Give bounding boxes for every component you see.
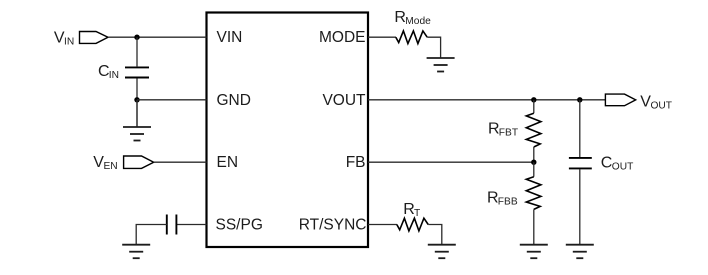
- ground RMode: [427, 58, 455, 72]
- resistor R2 RFBT top lead: [533, 100, 535, 113]
- svg-text:R: R: [394, 9, 406, 26]
- svg-text:VIN: VIN: [217, 29, 243, 46]
- wire RMode to ground corner: [427, 37, 440, 58]
- wire COUT to ground: [579, 169, 581, 244]
- wire C2 to ground corner: [136, 225, 167, 245]
- wire VIN terminal to VIN pin: [108, 36, 207, 38]
- wire RT to ground corner: [428, 225, 442, 245]
- label VIN net: [54, 30, 74, 48]
- svg-text:IN: IN: [64, 37, 74, 48]
- ground SS: [122, 245, 150, 259]
- IC U1 body: [207, 13, 369, 248]
- svg-text:SS/PG: SS/PG: [216, 217, 263, 234]
- svg-text:FB: FB: [346, 154, 366, 171]
- resistor R3 RFBB: [526, 177, 541, 210]
- svg-text:IN: IN: [109, 70, 119, 81]
- label RMode: [394, 9, 431, 27]
- wire GND pin to node: [137, 99, 207, 101]
- resistor R1 RMode: [396, 31, 427, 44]
- label CIN: [98, 63, 119, 81]
- wire VOUT rail: [368, 99, 605, 101]
- label VOUT net: [640, 94, 672, 112]
- label VEN net: [93, 154, 117, 172]
- output terminal VOUT flag: [605, 94, 635, 106]
- input terminal VEN flag: [124, 156, 154, 168]
- svg-text:EN: EN: [104, 161, 118, 172]
- wire VEN terminal to EN pin: [154, 161, 207, 163]
- junction dot VIN/CIN node: [134, 35, 139, 40]
- resistor R4 RT: [397, 218, 428, 231]
- junction dot CIN/GND node: [134, 97, 139, 102]
- ground RFBB: [520, 245, 548, 259]
- resistor R2 RFBT bottom lead: [533, 147, 535, 162]
- svg-text:VOUT: VOUT: [322, 92, 366, 109]
- svg-text:FBB: FBB: [498, 196, 518, 207]
- input terminal VIN flag: [80, 32, 109, 44]
- label RT: [403, 201, 420, 219]
- wire RFBB to ground: [533, 209, 535, 244]
- wire SS/PG pin to C2: [176, 224, 206, 226]
- wire RT/SYNC pin to RT: [368, 224, 397, 226]
- svg-text:RT/SYNC: RT/SYNC: [299, 217, 367, 234]
- junction dot VOUT/RFBT: [531, 97, 536, 102]
- wire node to input ground: [136, 100, 138, 127]
- svg-text:Mode: Mode: [405, 16, 431, 27]
- resistor R3 RFBB top lead: [533, 162, 535, 177]
- wire VOUT node to COUT: [579, 100, 581, 157]
- label COUT: [601, 155, 634, 173]
- ground RT: [428, 245, 456, 259]
- ground input: [123, 127, 151, 141]
- svg-text:EN: EN: [217, 154, 239, 171]
- wire CIN bottom lead: [136, 78, 138, 99]
- svg-text:C: C: [601, 155, 613, 172]
- capacitor C1 CIN: [125, 67, 149, 77]
- svg-text:GND: GND: [217, 92, 251, 109]
- svg-text:OUT: OUT: [612, 161, 634, 172]
- resistor R2 RFBT: [526, 113, 541, 147]
- wire CIN top lead: [136, 37, 138, 66]
- junction dot VOUT/COUT: [577, 97, 582, 102]
- svg-text:OUT: OUT: [651, 100, 673, 111]
- capacitor C2 soft-start: [167, 215, 177, 235]
- svg-text:FBT: FBT: [499, 128, 518, 139]
- wire FB pin to divider node: [368, 161, 534, 163]
- ground COUT: [566, 245, 594, 259]
- label RFBB: [487, 190, 518, 208]
- label RFBT: [488, 121, 518, 139]
- svg-text:MODE: MODE: [319, 29, 366, 46]
- junction dot FB node: [531, 160, 536, 165]
- capacitor C3 COUT: [569, 158, 592, 169]
- wire MODE pin to RMode: [368, 36, 396, 38]
